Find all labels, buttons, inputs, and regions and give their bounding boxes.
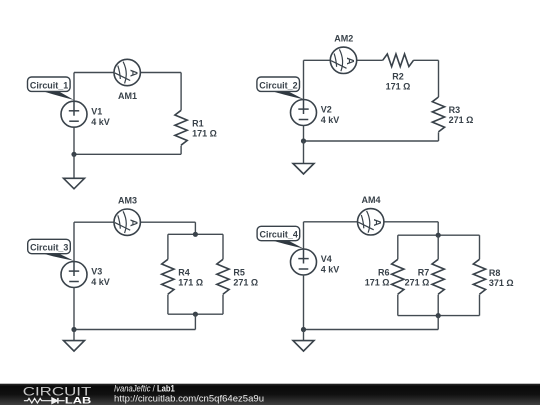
svg-text:271 Ω: 271 Ω: [449, 115, 474, 125]
wire: [479, 235, 481, 259]
node Circuit_1 callout: [42, 91, 74, 100]
node Circuit_4 callout: [272, 240, 304, 248]
resistor R4: [162, 259, 174, 294]
wire: [167, 295, 169, 315]
wire bottom net: [304, 140, 439, 142]
wire feed down: [194, 314, 196, 329]
svg-text:371 Ω: 371 Ω: [489, 278, 514, 288]
svg-text:Circuit_1: Circuit_1: [30, 80, 68, 90]
wire parallel bottom rail: [168, 313, 223, 315]
junction node: [301, 327, 306, 332]
resistor R1: [175, 110, 187, 145]
svg-text:V4: V4: [321, 254, 332, 264]
junction node: [71, 152, 76, 157]
footer bar: [0, 384, 540, 405]
svg-text:A: A: [344, 57, 356, 65]
svg-text:A: A: [371, 219, 383, 227]
wire to ground: [303, 141, 305, 164]
svg-text:R3: R3: [449, 105, 461, 115]
wire to ground: [73, 154, 75, 178]
junction node: [301, 138, 306, 143]
ground: [64, 341, 85, 352]
svg-text:4 kV: 4 kV: [91, 117, 110, 127]
wire bottom net: [74, 153, 181, 155]
svg-text:171 Ω: 171 Ω: [192, 129, 217, 139]
resistor R7: [432, 259, 444, 294]
svg-text:171 Ω: 171 Ω: [365, 277, 390, 287]
svg-text:R5: R5: [233, 267, 245, 277]
wire: [304, 221, 358, 223]
svg-text:Circuit_2: Circuit_2: [259, 80, 297, 90]
wire: [140, 72, 181, 74]
svg-text:AM3: AM3: [118, 195, 137, 205]
ammeter AM3: [114, 209, 140, 235]
junction top rail: [436, 233, 441, 238]
wire: [304, 59, 331, 61]
svg-text:271 Ω: 271 Ω: [233, 277, 258, 287]
wire: [437, 235, 439, 259]
svg-text:IvanaJeftic / Lab1: IvanaJeftic / Lab1: [114, 383, 175, 393]
wire feed down: [194, 222, 196, 234]
wire: [73, 222, 75, 261]
junction bottom rail: [436, 313, 441, 318]
svg-text:R7: R7: [418, 267, 430, 277]
svg-text:V2: V2: [321, 105, 332, 115]
svg-text:R8: R8: [489, 268, 501, 278]
wire bottom net: [304, 329, 439, 331]
wire to ground: [73, 330, 75, 341]
junction bottom rail: [193, 312, 198, 317]
voltage source V4: [291, 249, 317, 275]
wire: [140, 221, 195, 223]
wire: [438, 132, 440, 141]
wire: [73, 288, 75, 330]
svg-text:Circuit_4: Circuit_4: [260, 230, 298, 240]
svg-text:171 Ω: 171 Ω: [178, 277, 203, 287]
resistor R5: [217, 259, 229, 294]
wire: [74, 221, 114, 223]
svg-text:4 kV: 4 kV: [91, 277, 110, 287]
wire: [357, 59, 383, 61]
wire: [303, 275, 305, 330]
svg-text:AM4: AM4: [361, 195, 380, 205]
svg-text:http://circuitlab.com/cn5qf64e: http://circuitlab.com/cn5qf64ez5a9u: [114, 393, 264, 403]
wire feed down: [437, 316, 439, 330]
svg-text:LAB: LAB: [65, 395, 91, 405]
ammeter AM1: [114, 59, 140, 85]
wire: [222, 234, 224, 259]
voltage source V1: [61, 101, 87, 127]
junction top rail: [193, 232, 198, 237]
wire: [397, 235, 399, 259]
node Circuit_2 callout: [272, 91, 304, 99]
voltage source V3: [61, 262, 87, 288]
svg-text:271 Ω: 271 Ω: [405, 277, 430, 287]
resistor R2: [383, 54, 414, 67]
resistor R8: [473, 259, 485, 294]
svg-text:V1: V1: [91, 106, 102, 116]
wire: [74, 72, 114, 74]
svg-text:R1: R1: [192, 118, 204, 128]
node Circuit_3 callout: [43, 253, 74, 260]
svg-text:4 kV: 4 kV: [321, 115, 340, 125]
svg-text:Circuit_3: Circuit_3: [30, 243, 68, 253]
svg-text:A: A: [128, 219, 140, 227]
svg-text:R6: R6: [378, 267, 390, 277]
svg-text:171 Ω: 171 Ω: [386, 81, 411, 91]
wire: [167, 234, 169, 259]
wire: [180, 73, 182, 111]
wire: [222, 295, 224, 315]
wire: [180, 146, 182, 155]
wire: [303, 222, 305, 249]
resistor R6: [392, 259, 404, 294]
ground: [293, 341, 314, 352]
wire parallel top rail: [398, 234, 480, 236]
junction node: [71, 327, 76, 332]
wire parallel bottom rail: [398, 315, 480, 317]
ammeter AM2: [330, 47, 356, 73]
ammeter AM4: [358, 209, 384, 235]
wire bottom net: [74, 329, 195, 331]
CircuitLab logo mark (resistor + diode): [24, 398, 65, 404]
voltage source V2: [291, 100, 317, 126]
wire: [437, 295, 439, 316]
wire: [397, 295, 399, 316]
resistor R3: [432, 97, 444, 132]
svg-text:R4: R4: [178, 267, 190, 277]
wire: [479, 295, 481, 316]
svg-text:A: A: [128, 69, 140, 77]
svg-text:R2: R2: [392, 71, 404, 81]
svg-text:AM2: AM2: [334, 34, 353, 44]
ground: [64, 178, 85, 189]
wire feed down: [437, 222, 439, 235]
wire: [413, 59, 438, 61]
svg-text:AM1: AM1: [118, 91, 137, 101]
wire: [73, 127, 75, 154]
wire: [438, 60, 440, 97]
svg-text:V3: V3: [91, 267, 102, 277]
wire: [384, 221, 438, 223]
wire parallel top rail: [168, 233, 223, 235]
wire: [303, 126, 305, 142]
svg-text:4 kV: 4 kV: [321, 265, 340, 275]
wire: [303, 60, 305, 99]
wire to ground: [303, 330, 305, 341]
ground: [293, 164, 314, 175]
wire: [73, 73, 75, 102]
